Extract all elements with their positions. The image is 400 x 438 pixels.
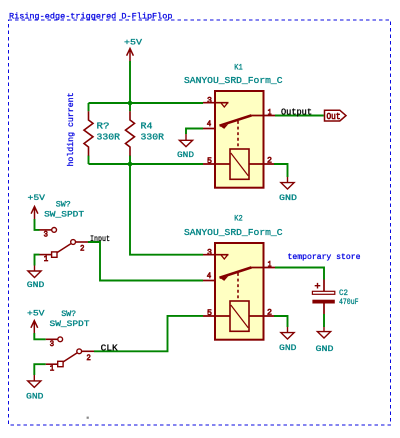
K2 pin 4 (203, 280, 215, 282)
ground (K1 pin4) (179, 134, 192, 147)
resistor R4 (126, 111, 135, 155)
resistor R? (84, 111, 93, 155)
SW1 pin 3 (40, 229, 52, 231)
relay K2 (215, 243, 264, 340)
svg-text:R?: R? (97, 122, 110, 132)
svg-text:K1: K1 (234, 63, 243, 73)
SW1 pin 1 (52, 252, 57, 257)
K1 wiper arrow (221, 124, 229, 129)
wire +5V to SW1 pin3 (35, 219, 40, 230)
svg-text:Output: Output (281, 107, 312, 117)
svg-text:K2: K2 (234, 213, 243, 223)
svg-text:GND: GND (177, 150, 194, 160)
svg-text:Out: Out (327, 112, 341, 122)
wire R? top lead (88, 103, 90, 111)
junction top rail (128, 101, 133, 106)
svg-text:SW_SPDT: SW_SPDT (50, 319, 90, 329)
power +5V symbol (top) (127, 49, 134, 62)
svg-text:4: 4 (207, 271, 212, 281)
K1 pin 1 (252, 115, 276, 117)
svg-text:GND: GND (26, 391, 44, 401)
ground (K1 pin2) (281, 177, 294, 189)
svg-text:330R: 330R (97, 132, 121, 142)
svg-text:470uF: 470uF (339, 297, 359, 307)
wire top rail (89, 102, 204, 104)
svg-text:3: 3 (50, 339, 55, 349)
svg-text:+5V: +5V (124, 38, 143, 48)
svg-text:GND: GND (279, 343, 297, 353)
svg-text:4: 4 (207, 119, 212, 129)
wire R4 top lead (129, 103, 131, 111)
SW2 pin 1 (58, 361, 63, 366)
K2 pin 3 (203, 254, 229, 256)
SW1 lever (57, 244, 71, 253)
svg-text:5: 5 (207, 308, 212, 318)
svg-text:1: 1 (268, 108, 272, 118)
svg-text:holding current: holding current (66, 93, 76, 167)
svg-text:1: 1 (50, 364, 55, 374)
wire K2 pin2 to GND (274, 316, 288, 327)
K1 coil (230, 149, 249, 179)
K1 actuator dashed link (237, 121, 239, 149)
K2 coil (230, 301, 249, 331)
wire down to K2 pin3 (130, 164, 203, 255)
SW1 pin 2 (common) (71, 240, 76, 245)
wire SW1 pin1 to GND (35, 255, 40, 266)
K2 pin 2 (249, 315, 274, 317)
wire +5V to top rail (129, 61, 131, 103)
K1 switch lever (220, 115, 252, 125)
svg-text:R4: R4 (141, 122, 153, 132)
svg-text:SW?: SW? (61, 309, 76, 319)
K2 wiper arrow (221, 276, 229, 281)
svg-text:GND: GND (279, 193, 297, 203)
global label Out (325, 110, 347, 121)
svg-text:SANYOU_SRD_Form_C: SANYOU_SRD_Form_C (184, 76, 283, 86)
svg-text:GND: GND (27, 280, 45, 290)
svg-text:3: 3 (207, 247, 212, 257)
wire SW2 pin1 to GND (34, 364, 45, 375)
wire R4 bottom lead (129, 156, 131, 165)
wire K1 pin1 to Out (275, 115, 324, 117)
wire Input to K2 pin4 (88, 242, 203, 281)
SW2 pin 3 (46, 338, 58, 340)
svg-text:Rising-edge-triggered D-FlipFl: Rising-edge-triggered D-FlipFlop (9, 12, 172, 22)
svg-text:2: 2 (80, 244, 85, 254)
svg-text:temporary store: temporary store (288, 252, 361, 262)
svg-text:2: 2 (267, 308, 272, 318)
K2 pin 1 (252, 267, 276, 269)
power +5V symbol (switch SW? input) (31, 207, 38, 220)
K1 pin 5 (203, 163, 230, 165)
ground (K2 pin2) (281, 327, 294, 339)
svg-text:3: 3 (207, 95, 212, 105)
ground (SW1) (28, 266, 41, 278)
K2 actuator dashed link (237, 273, 239, 301)
svg-text:GND: GND (316, 344, 334, 354)
svg-text:1: 1 (268, 260, 272, 270)
svg-text:5: 5 (207, 156, 212, 166)
relay K1 (215, 91, 264, 188)
wire K1 pin4 to GND (186, 129, 203, 135)
wire +5V to SW2 pin3 (34, 333, 45, 339)
K1 pin 2 (249, 163, 274, 165)
grid origin marker (87, 417, 89, 419)
wire K2 pin1 to C2 (275, 268, 324, 280)
capacitor C2 (323, 280, 325, 315)
svg-text:2: 2 (267, 156, 272, 166)
K1 pin 4 (203, 128, 215, 130)
svg-text:330R: 330R (141, 132, 165, 142)
svg-text:2: 2 (86, 353, 91, 363)
junction bottom rail (128, 162, 133, 167)
svg-text:SANYOU_SRD_Form_C: SANYOU_SRD_Form_C (184, 228, 283, 238)
svg-text:+5V: +5V (27, 308, 46, 318)
K1 pin 3 (203, 102, 229, 104)
K2 pin 5 (203, 315, 230, 317)
wire K1 pin2 to GND (274, 164, 288, 177)
K2 switch lever (220, 267, 252, 277)
svg-text:1: 1 (44, 254, 49, 264)
svg-text:3: 3 (44, 230, 49, 240)
svg-text:SW?: SW? (56, 200, 71, 210)
wire C2 to GND (323, 314, 325, 327)
SW2 lever (63, 353, 77, 362)
wire bottom rail (89, 163, 204, 165)
wire R? bottom lead (88, 156, 90, 165)
SW2 pin 2 (common) (77, 349, 82, 354)
power +5V symbol (switch SW? clk) (31, 321, 38, 333)
svg-text:SW_SPDT: SW_SPDT (44, 210, 84, 220)
ground (SW2) (28, 375, 41, 387)
svg-text:+5V: +5V (28, 193, 47, 203)
wire CLK to K2 pin5 (94, 316, 203, 351)
ground (C2) (317, 327, 330, 338)
